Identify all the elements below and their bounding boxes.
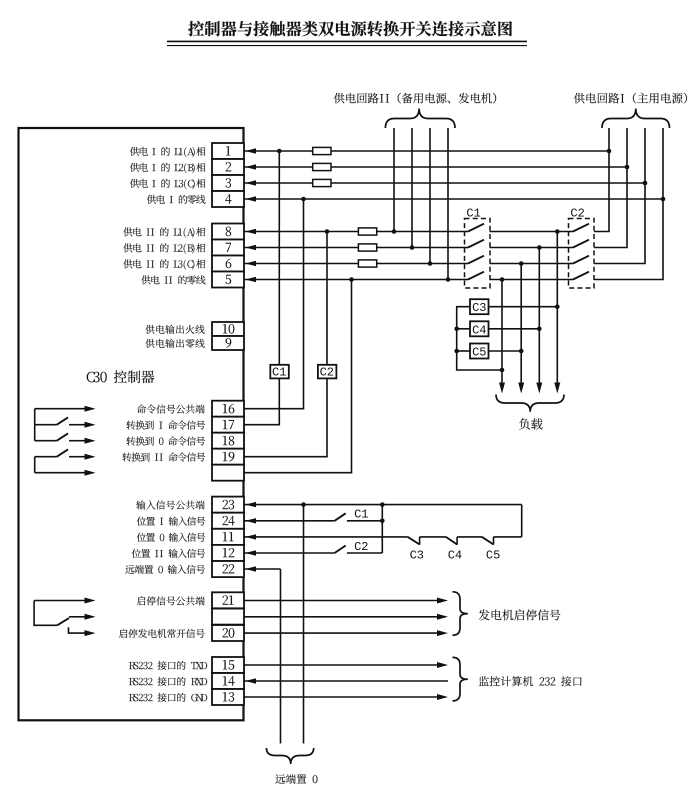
wire terminal 8 row — [244, 231, 465, 233]
wire terminal 12 row — [244, 552, 335, 554]
C1 contact pole 1 blade — [465, 231, 469, 233]
load line 3 — [538, 248, 540, 384]
wire coil C5 left stub — [457, 350, 470, 352]
C2 contact pole 2 blade — [569, 247, 574, 249]
wire terminal 2 row — [244, 166, 627, 168]
wire terminal 14 RXD in — [244, 680, 448, 682]
terminal 15 — [212, 657, 244, 673]
label 位置 I 输入信号 — [137, 517, 206, 526]
junction row8/coilC2 drop — [325, 229, 330, 234]
terminal 16 — [212, 401, 244, 417]
wire supply II line L2 vertical — [411, 128, 413, 248]
wire row1 to coil C1 (x=279) — [278, 151, 280, 365]
svg-text:C1: C1 — [272, 366, 286, 380]
wire terminal 11 row — [244, 536, 408, 538]
contact C5 (series) — [482, 537, 494, 545]
wire coil C1 to terminal 17 — [244, 378, 279, 424]
contact C2 (position II feedback) — [335, 546, 346, 554]
brace: generator start/stop — [453, 592, 468, 636]
junction supplyII N/row5 — [446, 277, 451, 282]
wire terminal 5 row — [244, 279, 465, 281]
coil C5 box — [470, 344, 489, 359]
wire C1 out row2 to C2 — [490, 247, 569, 249]
switch: to-I command — [35, 424, 57, 426]
label 位置 0 输入信号 — [137, 533, 206, 542]
junction input-common/feedback-bus — [380, 502, 385, 507]
load line 1 (neutral) — [501, 280, 503, 384]
junction C3/load4 — [555, 304, 560, 309]
wire terminal 21 to generator — [244, 600, 437, 602]
fuse F6 row 6 — [358, 260, 376, 267]
label 供电 I 的 L2(B)相 — [130, 163, 206, 173]
wire terminal 6 row — [244, 263, 465, 265]
wire coil C4 right to load line 3 — [489, 328, 540, 330]
contact C3 (series) — [408, 537, 420, 545]
label 供电 I 的零线 — [147, 195, 206, 204]
label 命令信号公共端 — [137, 404, 205, 413]
wire supply I neutral vertical — [594, 128, 663, 280]
label 转换到 I 命令信号 — [126, 420, 205, 429]
contact C4 (series) — [446, 537, 457, 545]
terminal 21 — [212, 592, 244, 608]
label RS232 接口的 GND — [129, 693, 207, 702]
load arrows — [499, 383, 505, 394]
junction coil bus/C5 — [454, 349, 459, 354]
switch group: start-stop common arrow — [34, 600, 85, 602]
fuse F4 row 8 — [358, 228, 376, 235]
svg-text:C4: C4 — [448, 549, 462, 563]
brace: supply circuit II group — [385, 109, 455, 129]
label 转换到 0 命令信号 — [126, 436, 205, 445]
wire terminal 23 row (input common) — [244, 504, 522, 506]
switch group: command common arrow — [35, 408, 85, 410]
svg-text:C3: C3 — [472, 301, 486, 315]
title 控制器与接触器类双电源转换开关连接示意图 — [188, 21, 512, 37]
junction coil-bus/load1 — [500, 368, 505, 373]
svg-text:C5: C5 — [472, 346, 486, 360]
terminal 23 — [212, 497, 244, 513]
junction row5/spare drop — [349, 277, 354, 282]
brace: load — [496, 395, 564, 412]
wire terminal 1 row — [244, 150, 609, 152]
junction C5/load2 — [519, 349, 524, 354]
wire terminal 7 row — [244, 247, 465, 249]
terminal 9 — [212, 336, 244, 350]
contact C1 (position I feedback) — [335, 513, 346, 521]
brace: monitoring computer RS232 — [453, 657, 468, 701]
terminal 19 — [212, 449, 244, 465]
brace: supply circuit I group — [602, 109, 670, 129]
wire coil bus left — [457, 307, 502, 370]
label 位置 II 输入信号 — [132, 549, 206, 558]
switch: to-II command — [35, 456, 57, 458]
switch: start-stop blade — [57, 618, 69, 625]
wire input common down-turn — [521, 505, 523, 537]
title double underline — [167, 40, 527, 42]
junction load3/row 247 — [537, 245, 542, 250]
terminal 10 — [212, 322, 244, 336]
terminal 11 — [212, 529, 244, 545]
junction supplyI N/row4 — [661, 197, 666, 202]
terminal (spare) — [212, 465, 244, 481]
junction supplyI L2/row2 — [625, 165, 630, 170]
C2 contact pole 3 blade — [569, 263, 574, 265]
wire supply I line L2 vertical — [594, 128, 627, 248]
junction supplyII L1/row8 — [392, 229, 397, 234]
junction load1/row 279 — [500, 277, 505, 282]
terminal 2 — [212, 159, 244, 175]
load line 2 — [520, 264, 522, 384]
label C30 控制器 — [87, 370, 155, 383]
junction row4/terminal16 drop — [301, 197, 306, 202]
switch group: command bus — [34, 409, 36, 441]
svg-text:C3: C3 — [410, 549, 424, 563]
junction supplyII L3/row6 — [428, 261, 433, 266]
terminal 24 — [212, 513, 244, 529]
terminal 14 — [212, 673, 244, 689]
C1 contact pole 4 blade — [465, 279, 469, 281]
contactor C2 dashed box — [569, 219, 595, 289]
label 启停发电机常开信号 — [119, 629, 205, 638]
junction load4/row 231 — [555, 229, 560, 234]
wire supply II line L1 vertical — [393, 128, 395, 232]
wire C1 out row4 to C2 — [490, 279, 569, 281]
contactor C1 dashed box — [465, 219, 491, 289]
wire supply I line L3 vertical — [594, 128, 645, 264]
wire terminal 13 GND out — [244, 696, 437, 698]
C1 contact pole 3 blade — [465, 263, 469, 265]
wire remote-0 line B — [303, 505, 305, 744]
wire terminal 22 row (remote set 0) — [244, 568, 281, 570]
wire C1 out row3 to C2 — [490, 263, 569, 265]
svg-text:C1: C1 — [354, 508, 368, 522]
wire remote-0 line A — [280, 569, 282, 744]
wire terminal 24 row — [244, 520, 335, 522]
label 启停信号公共端 — [137, 596, 205, 605]
C1 contact pole 2 blade — [465, 247, 469, 249]
terminal (spare) — [212, 609, 244, 625]
switch group: start-stop bus — [34, 601, 57, 626]
wire coil C2 to terminal 19 — [244, 378, 327, 457]
junction supplyI L1/row1 — [607, 149, 612, 154]
brace: remote set 0 — [266, 748, 313, 764]
label 供电 II 的零线 — [141, 275, 205, 284]
label 供电回路I（主用电源） — [574, 93, 687, 104]
junction input-common/remote-line — [301, 502, 306, 507]
label 远端置 0 输入信号 — [125, 565, 205, 574]
coil C1 box — [270, 365, 289, 379]
wire terminal 15 TXD out — [244, 664, 437, 666]
wire row5 to spare terminal — [244, 280, 352, 473]
terminal 3 — [212, 175, 244, 191]
label 远端置 0 — [275, 774, 317, 784]
coil C2 box — [318, 365, 337, 379]
junction supplyII L2/row7 — [410, 245, 415, 250]
terminal 20 — [212, 625, 244, 641]
junction coil bus/C4 — [454, 327, 459, 332]
wire row8 to coil C2 (x=327) — [326, 232, 328, 365]
terminal 7 — [212, 240, 244, 256]
wire spare start terminal to generator — [244, 616, 437, 618]
terminal 22 — [212, 561, 244, 577]
fuse F5 row 7 — [358, 244, 376, 251]
label 供电 II 的 L3(C)相 — [123, 259, 205, 269]
label 发电机启停信号 — [479, 609, 561, 620]
wire coil C4 left stub — [457, 328, 470, 330]
wire supply II neutral vertical — [447, 128, 449, 280]
svg-text:C2: C2 — [354, 540, 368, 554]
junction C4/load3 — [537, 327, 542, 332]
coil C4 box — [470, 321, 489, 336]
label 监控计算机 232 接口 — [479, 676, 582, 686]
label 输入信号公共端 — [136, 500, 205, 509]
switch: to-0 command — [35, 440, 57, 442]
junction contactC1/feedback-bus — [380, 519, 385, 524]
wire feedback bus x=382 — [381, 505, 383, 553]
label 供电回路II（备用电源、发电机） — [334, 93, 496, 104]
svg-text:C4: C4 — [472, 323, 486, 337]
terminal 1 — [212, 143, 244, 159]
label 供电输出零线 — [145, 339, 204, 348]
junction row1/coilC1 drop — [277, 149, 282, 154]
svg-text:C2: C2 — [320, 366, 334, 380]
C2 contact pole 1 blade — [569, 231, 574, 233]
wire coil C5 right to load line 2 — [489, 350, 522, 352]
wire terminal 20 to generator — [244, 632, 437, 634]
switch group: spare arrow — [35, 472, 85, 474]
label 供电 I 的 L1(A)相 — [130, 147, 206, 157]
fuse F3 row 3 — [313, 179, 331, 186]
label 供电 II 的 L1(A)相 — [123, 227, 205, 237]
fuse F2 row 2 — [313, 163, 331, 170]
wire supply I line L1 vertical — [594, 128, 609, 232]
label 负载 — [519, 418, 542, 429]
wire terminal 4 row — [244, 198, 663, 200]
terminal 6 — [212, 256, 244, 272]
wire coil C3 right to load line 4 — [489, 306, 558, 308]
label RS232 接口的 TXD — [129, 661, 207, 670]
switch: start-stop NO lower arrow — [69, 627, 86, 633]
junction supplyI L3/row3 — [643, 181, 648, 186]
terminal 17 — [212, 417, 244, 433]
junction load2/row 263 — [519, 261, 524, 266]
switch: start-stop NO mid arrow — [69, 616, 85, 618]
label 供电 I 的 L3(C)相 — [130, 179, 206, 189]
label 转换到 II 命令信号 — [122, 452, 205, 461]
label 供电输出火线 — [145, 325, 204, 334]
controller box C30 — [19, 128, 244, 720]
wire row4 to terminal 16 — [244, 199, 304, 409]
label 供电 II 的 L2(B)相 — [123, 243, 205, 253]
coil C3 box — [470, 299, 489, 314]
fuse F1 row 1 — [313, 147, 331, 154]
terminal 4 — [212, 191, 244, 207]
C2 contact pole 4 blade — [569, 279, 574, 281]
terminal 13 — [212, 689, 244, 705]
terminal 5 — [212, 272, 244, 288]
svg-text:C5: C5 — [486, 549, 500, 563]
wire terminal 3 row — [244, 182, 645, 184]
terminal 18 — [212, 433, 244, 449]
label RS232 接口的 RXD — [129, 677, 207, 686]
wire C1 out row1 to C2 — [490, 231, 569, 233]
wire supply II line L3 vertical — [429, 128, 431, 264]
terminal 8 — [212, 224, 244, 240]
load line 4 — [556, 232, 558, 384]
terminal 12 — [212, 545, 244, 561]
